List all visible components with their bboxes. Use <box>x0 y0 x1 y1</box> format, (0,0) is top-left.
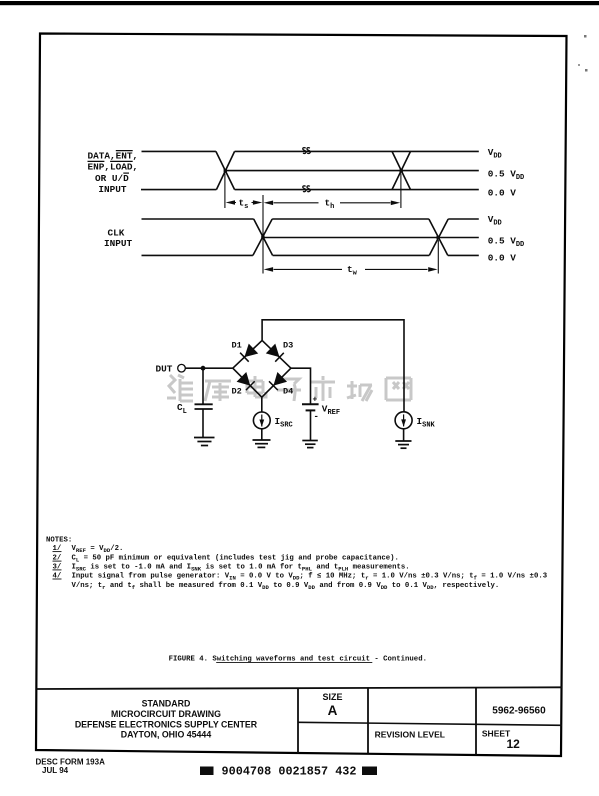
node timing tick at clk X2 <box>437 240 439 274</box>
wire ISRC to ground <box>261 429 263 440</box>
svg-text:0.0 V: 0.0 V <box>488 188 517 199</box>
svg-text:OR U/D: OR U/D <box>95 173 129 184</box>
top scan bar <box>0 1 599 5</box>
diode D1 <box>233 340 262 368</box>
node data transition X2 <box>392 151 411 189</box>
svg-text:JUL 94: JUL 94 <box>42 766 69 775</box>
wire bridge top vertex up and across to ISNK <box>262 320 404 412</box>
dimension tw arrows <box>264 267 438 272</box>
node timing tick at data X2 <box>400 174 402 209</box>
node timing tick at data X1 <box>224 174 226 209</box>
dimension th arrows <box>264 201 401 206</box>
barcode line <box>200 765 377 779</box>
battery VREF <box>302 404 319 410</box>
svg-text:V/ns; tr and tf shall be measu: V/ns; tr and tf shall be measured from 0… <box>72 582 500 591</box>
svg-text:9004708 0021857 432: 9004708 0021857 432 <box>222 765 357 779</box>
svg-text:DATA,ENT,: DATA,ENT, <box>88 151 139 162</box>
wire clk top rail middle <box>272 218 429 220</box>
junction DUT/CL node <box>201 366 206 371</box>
svg-text:MICROCIRCUIT DRAWING: MICROCIRCUIT DRAWING <box>111 709 221 719</box>
wire data mid rail 0.5VDD <box>225 170 479 172</box>
svg-text:ENP,LOAD,: ENP,LOAD, <box>88 162 139 173</box>
form footer <box>36 758 106 776</box>
diode D4 <box>262 368 291 397</box>
svg-text:0.0 V: 0.0 V <box>488 253 517 264</box>
wire data bottom rail 0V middle <box>235 189 479 191</box>
svg-text:NOTES:: NOTES: <box>46 537 72 545</box>
watermark <box>167 375 411 401</box>
current source ISRC <box>253 412 270 429</box>
wire VREF to ground <box>310 410 312 440</box>
wire clk bottom rail middle <box>273 254 430 256</box>
wire data top rail VDD middle <box>235 150 479 152</box>
wire bridge bottom vertex to ISRC <box>261 397 263 412</box>
node clk transition X1 <box>253 219 273 255</box>
diode D3 <box>262 340 291 368</box>
svg-text:STANDARD: STANDARD <box>142 699 191 709</box>
wire data input bottom rail 0V left <box>141 189 216 191</box>
ground ISRC <box>253 440 271 447</box>
wire clk top rail right <box>448 218 479 220</box>
svg-text:-: - <box>314 412 319 422</box>
svg-text:12: 12 <box>507 737 521 751</box>
svg-text:D4: D4 <box>283 386 293 396</box>
svg-text:D3: D3 <box>283 341 293 351</box>
svg-text:Input signal from pulse genera: Input signal from pulse generator: VIN =… <box>72 572 548 581</box>
svg-text:D1: D1 <box>232 341 242 351</box>
node label DATA,ENT,ENP,LOAD,OR U/D INPUT <box>88 151 139 196</box>
wire clk bottom rail right <box>448 254 479 256</box>
svg-text:DUT: DUT <box>156 364 173 375</box>
node clk transition X2 <box>429 219 448 255</box>
wire clk mid rail 0.5VDD <box>263 237 479 239</box>
current source ISNK <box>395 412 412 429</box>
ground CL <box>194 438 215 446</box>
node label CLK INPUT <box>104 228 133 249</box>
svg-text:A: A <box>328 703 338 718</box>
wire bridge right vertex to VREF <box>291 368 311 404</box>
wire clk top rail left <box>142 218 254 220</box>
node timing tick at clk X1 <box>262 195 264 274</box>
svg-text:REVISION LEVEL: REVISION LEVEL <box>375 729 445 739</box>
capacitor CL <box>195 404 213 409</box>
svg-text:DEFENSE ELECTRONICS SUPPLY CEN: DEFENSE ELECTRONICS SUPPLY CENTER <box>75 719 258 729</box>
wire clk bottom rail left <box>142 254 253 256</box>
ground VREF <box>302 441 318 448</box>
svg-text:DAYTON, OHIO 45444: DAYTON, OHIO 45444 <box>121 730 212 740</box>
wire data input top rail VDD left <box>142 150 216 152</box>
node data transition X1 <box>216 151 235 189</box>
title block lines <box>37 687 562 754</box>
ground ISNK <box>395 441 411 448</box>
node data break mark top rail <box>303 148 310 154</box>
svg-text:+: + <box>313 395 318 404</box>
diode D2 <box>233 368 262 397</box>
wire capacitor to ground <box>202 409 204 438</box>
wire DUT to bridge left vertex <box>185 367 233 369</box>
node DUT terminal <box>178 364 186 372</box>
node data break mark bottom rail <box>303 186 310 192</box>
svg-text:SIZE: SIZE <box>322 692 342 702</box>
svg-text:INPUT: INPUT <box>104 238 133 249</box>
svg-text:D2: D2 <box>232 386 242 396</box>
dimension ts arrows <box>226 200 263 205</box>
svg-text:INPUT: INPUT <box>98 184 127 195</box>
svg-text:ISRC is set to -1.0 mA and ISN: ISRC is set to -1.0 mA and ISNK is set t… <box>72 563 410 572</box>
wire CL node down to capacitor <box>202 368 204 404</box>
wire ISNK to ground <box>403 429 405 441</box>
svg-text:5962-96560: 5962-96560 <box>492 705 546 716</box>
svg-text:VREF = VDD/2.: VREF = VDD/2. <box>72 545 124 554</box>
